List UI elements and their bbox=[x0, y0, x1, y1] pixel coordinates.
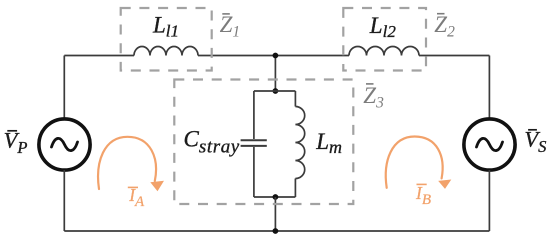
svg-text:Lm: Lm bbox=[315, 129, 342, 157]
svg-text:Z3: Z3 bbox=[363, 83, 384, 112]
wire top left segment bbox=[64, 55, 134, 57]
svg-text:Cstray: Cstray bbox=[184, 127, 240, 158]
wire capacitor leg upper bbox=[253, 91, 255, 139]
svg-text:Ll2: Ll2 bbox=[369, 13, 397, 41]
wire branch top horizontal bbox=[254, 90, 296, 92]
wire bottom bbox=[64, 230, 489, 232]
node junction bottom wire bbox=[273, 228, 279, 234]
current arrow I_B bbox=[386, 137, 443, 188]
wire middle bottom bbox=[274, 197, 276, 231]
svg-text:Z2: Z2 bbox=[434, 12, 455, 41]
node branch top bbox=[273, 88, 279, 94]
svg-text:IB: IB bbox=[415, 183, 431, 208]
wire right vertical upper bbox=[488, 56, 490, 120]
current arrow I_A bbox=[98, 137, 156, 189]
wire inductor leg upper bbox=[294, 91, 296, 107]
wire left vertical lower bbox=[63, 170, 65, 231]
impedance box Z3 bbox=[174, 80, 353, 205]
source V_S bbox=[464, 119, 515, 170]
capacitor C_stray bbox=[241, 140, 267, 146]
impedance box Z2 bbox=[343, 8, 426, 71]
wire top middle segment bbox=[198, 55, 349, 57]
source V_P bbox=[39, 119, 90, 170]
wire middle top bbox=[274, 56, 276, 92]
wire top right segment bbox=[419, 55, 489, 57]
svg-text:VS: VS bbox=[524, 127, 546, 157]
impedance box Z1 bbox=[121, 8, 212, 71]
inductor L_l1 bbox=[134, 47, 198, 56]
inductor L_l2 bbox=[349, 47, 419, 56]
wire inductor leg lower bbox=[294, 179, 296, 198]
wire left vertical upper bbox=[63, 56, 65, 120]
wire branch bottom horizontal bbox=[254, 196, 296, 198]
svg-text:IA: IA bbox=[128, 185, 145, 210]
wire right vertical lower bbox=[488, 170, 490, 231]
svg-text:VP: VP bbox=[4, 127, 28, 157]
inductor L_m bbox=[295, 107, 304, 179]
wire capacitor leg lower bbox=[253, 147, 255, 197]
node junction top wire bbox=[273, 53, 279, 59]
svg-text:Ll1: Ll1 bbox=[152, 13, 179, 41]
svg-text:Z1: Z1 bbox=[220, 12, 241, 41]
node branch bottom bbox=[273, 194, 279, 200]
